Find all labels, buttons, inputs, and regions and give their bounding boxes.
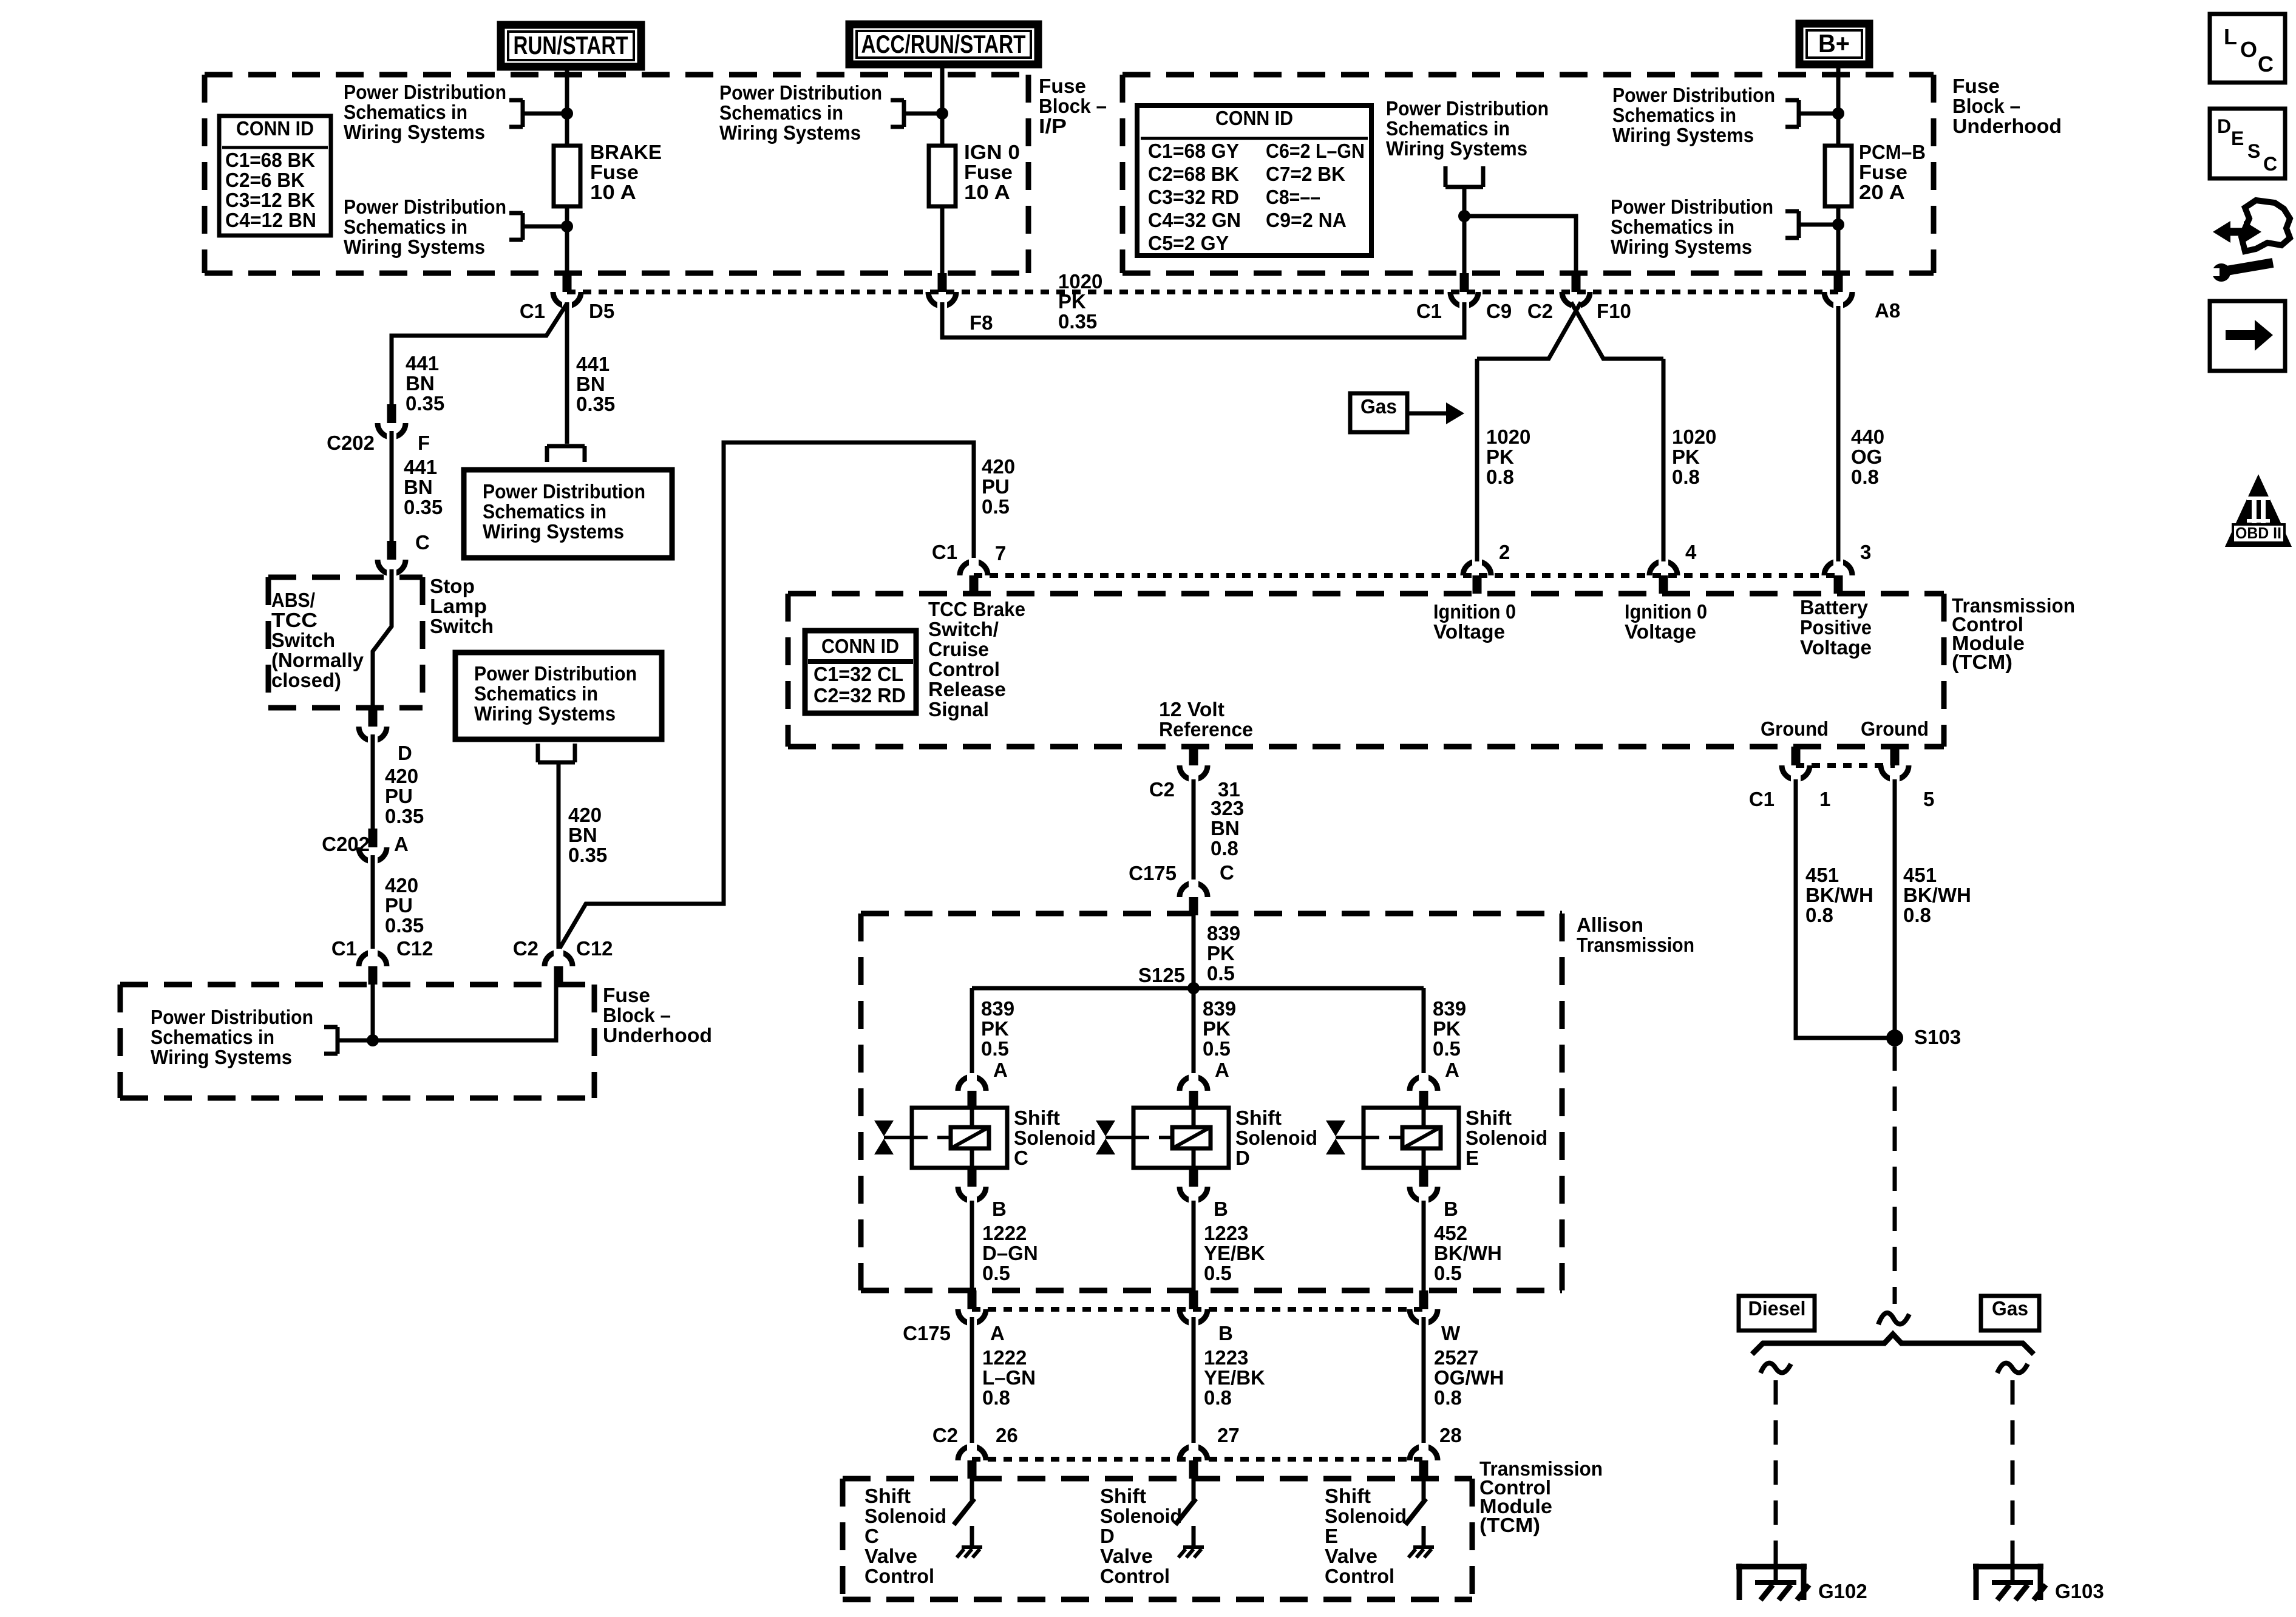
svg-text:OG/WH: OG/WH bbox=[1434, 1366, 1504, 1389]
svg-text:Schematics in: Schematics in bbox=[474, 682, 598, 705]
svg-text:Fuse: Fuse bbox=[1039, 75, 1086, 97]
svg-text:0.5: 0.5 bbox=[1207, 962, 1235, 985]
svg-text:C2=32 RD: C2=32 RD bbox=[813, 684, 906, 707]
wire split to F10 pin bbox=[1464, 216, 1576, 273]
valve symbol at shift solenoid C bbox=[874, 1120, 894, 1136]
svg-text:C9=2 NA: C9=2 NA bbox=[1266, 209, 1347, 231]
svg-text:Solenoid: Solenoid bbox=[1466, 1127, 1547, 1149]
connector C175 cavity C bbox=[1180, 883, 1207, 897]
break symbol above G103 drop bbox=[1997, 1363, 2028, 1373]
wire 451 BK/WH pin1 bbox=[1796, 779, 1888, 1038]
wire RUN/START to BRAKE fuse bbox=[565, 67, 569, 146]
svg-text:PK: PK bbox=[1486, 446, 1514, 468]
svg-text:C202: C202 bbox=[327, 432, 375, 454]
svg-text:PU: PU bbox=[385, 894, 413, 917]
power label B+ bbox=[1799, 24, 1869, 64]
wire S125 to solenoid D bbox=[1192, 988, 1196, 1079]
svg-text:0.5: 0.5 bbox=[982, 1262, 1010, 1284]
wire 2527 OG/WH to TCM pin 28 bbox=[1422, 1317, 1426, 1444]
svg-text:839: 839 bbox=[981, 997, 1014, 1020]
svg-text:839: 839 bbox=[1433, 997, 1466, 1020]
ground G102 bbox=[1736, 1564, 1807, 1570]
svg-text:C1: C1 bbox=[1416, 300, 1442, 322]
svg-text:PK: PK bbox=[981, 1017, 1009, 1040]
svg-text:0.35: 0.35 bbox=[385, 805, 424, 827]
table CONN ID (I/P fuse block) bbox=[219, 116, 331, 236]
svg-text:C7=2 BK: C7=2 BK bbox=[1266, 163, 1345, 185]
svg-text:(Normally: (Normally bbox=[271, 649, 364, 671]
arrow from Gas tag bbox=[1407, 412, 1447, 416]
svg-text:C2: C2 bbox=[932, 1424, 958, 1446]
svg-text:D: D bbox=[1235, 1147, 1250, 1169]
svg-text:Power Distribution: Power Distribution bbox=[483, 480, 645, 503]
svg-text:Valve: Valve bbox=[1100, 1545, 1153, 1567]
svg-text:PK: PK bbox=[1207, 942, 1235, 964]
wire 1020 PK crossover right bbox=[1571, 302, 1663, 359]
connector A8 (PCM-B output) bbox=[1824, 292, 1852, 306]
wire S125 branch bus bbox=[972, 986, 1424, 991]
wire junction to C12 (right) bbox=[373, 985, 556, 1040]
svg-text:Schematics in: Schematics in bbox=[1386, 117, 1510, 140]
svg-text:0.5: 0.5 bbox=[982, 495, 1010, 518]
svg-text:E: E bbox=[1325, 1525, 1338, 1547]
svg-text:IGN 0: IGN 0 bbox=[964, 141, 1020, 163]
break symbol above G102 drop bbox=[1761, 1363, 1791, 1373]
svg-text:E: E bbox=[1466, 1147, 1479, 1169]
svg-text:closed): closed) bbox=[271, 669, 341, 691]
svg-text:Solenoid: Solenoid bbox=[1325, 1505, 1407, 1527]
svg-text:Schematics in: Schematics in bbox=[719, 101, 843, 124]
svg-text:BK/WH: BK/WH bbox=[1434, 1242, 1502, 1264]
ground (solenoid E valve) bbox=[1422, 1526, 1426, 1547]
svg-text:(TCM): (TCM) bbox=[1479, 1514, 1540, 1536]
ground (solenoid C valve) bbox=[970, 1526, 974, 1547]
svg-text:B: B bbox=[992, 1198, 1007, 1220]
connector A of shift solenoid C bbox=[958, 1077, 986, 1091]
wire 323 BN bbox=[1192, 779, 1196, 884]
svg-text:C2=68 BK: C2=68 BK bbox=[1148, 163, 1239, 185]
svg-text:Solenoid: Solenoid bbox=[864, 1505, 946, 1527]
shift solenoid C body bbox=[912, 1108, 1007, 1168]
svg-text:0.8: 0.8 bbox=[1805, 904, 1833, 926]
svg-text:Fuse: Fuse bbox=[603, 984, 650, 1006]
svg-text:CONN ID: CONN ID bbox=[236, 117, 314, 140]
svg-text:PK: PK bbox=[1203, 1017, 1231, 1040]
svg-text:Valve: Valve bbox=[864, 1545, 917, 1567]
svg-text:2527: 2527 bbox=[1434, 1346, 1478, 1369]
power label RUN/START bbox=[501, 25, 641, 67]
svg-text:PU: PU bbox=[982, 475, 1010, 498]
svg-text:C202: C202 bbox=[322, 833, 370, 855]
svg-text:2: 2 bbox=[1499, 541, 1510, 563]
svg-text:Wiring Systems: Wiring Systems bbox=[1386, 137, 1527, 160]
svg-text:Ignition 0: Ignition 0 bbox=[1433, 600, 1516, 623]
wire dashed to G103 bbox=[2011, 1380, 2015, 1564]
svg-text:A: A bbox=[394, 833, 409, 855]
svg-text:441: 441 bbox=[404, 456, 437, 478]
reference box P2 Power Distribution bbox=[455, 653, 662, 739]
TCM dashed box bbox=[788, 591, 1944, 597]
svg-text:L: L bbox=[2224, 24, 2237, 49]
svg-text:C8=––: C8=–– bbox=[1266, 186, 1320, 208]
svg-text:YE/BK: YE/BK bbox=[1204, 1242, 1265, 1264]
svg-text:Power Distribution: Power Distribution bbox=[1611, 195, 1773, 218]
fuse PCM-B 20A symbol bbox=[1825, 146, 1852, 206]
svg-text:BRAKE: BRAKE bbox=[590, 141, 662, 163]
label box Diesel bbox=[1739, 1296, 1815, 1331]
connector A of shift solenoid E bbox=[1410, 1077, 1438, 1091]
connector pin 4 (ignition 0) bbox=[1649, 561, 1677, 575]
svg-text:Power Distribution: Power Distribution bbox=[474, 662, 637, 685]
svg-text:0.35: 0.35 bbox=[404, 496, 443, 518]
ground G103 bbox=[1973, 1564, 2043, 1570]
svg-text:Fuse: Fuse bbox=[1952, 75, 2000, 97]
svg-text:A8: A8 bbox=[1875, 299, 1900, 322]
svg-text:A: A bbox=[990, 1322, 1005, 1344]
switch shift solenoid C valve control bbox=[970, 1479, 974, 1500]
fuse block Underhood dashed box bbox=[1123, 72, 1934, 78]
connector pin 27 bbox=[1180, 1446, 1207, 1460]
svg-text:1222: 1222 bbox=[982, 1346, 1027, 1369]
svg-text:0.8: 0.8 bbox=[1851, 466, 1879, 488]
svg-text:420: 420 bbox=[982, 455, 1015, 478]
wire 1223 YE/BK solenoid D down bbox=[1192, 1201, 1196, 1290]
svg-text:Ground: Ground bbox=[1761, 717, 1829, 740]
connector C2 pin 26 bbox=[958, 1446, 986, 1460]
wire 420 PU D to C202A bbox=[371, 734, 375, 829]
svg-text:E: E bbox=[2231, 127, 2244, 149]
valve symbol at shift solenoid E bbox=[1326, 1120, 1345, 1136]
svg-text:0.8: 0.8 bbox=[1434, 1386, 1462, 1409]
svg-text:10 A: 10 A bbox=[964, 181, 1010, 203]
connector C1 pin 1 (ground) bbox=[1782, 765, 1810, 779]
svg-text:441: 441 bbox=[576, 353, 610, 375]
svg-text:451: 451 bbox=[1805, 864, 1839, 886]
node splice dot C9/F10 split bbox=[1458, 210, 1470, 222]
connector C202 cavity F bbox=[378, 423, 406, 437]
svg-text:PK: PK bbox=[1672, 446, 1700, 468]
svg-text:C1=68 GY: C1=68 GY bbox=[1148, 140, 1239, 162]
connector C1 pin 7 (TCC brake sw) bbox=[960, 561, 988, 575]
svg-text:Control: Control bbox=[864, 1565, 934, 1587]
svg-text:Diesel: Diesel bbox=[1748, 1297, 1806, 1320]
wire 420 BN from P2 to C12 bbox=[557, 762, 561, 953]
svg-text:Reference: Reference bbox=[1159, 718, 1253, 741]
svg-text:Solenoid: Solenoid bbox=[1014, 1127, 1096, 1149]
svg-text:S: S bbox=[2247, 140, 2260, 162]
switch shift solenoid D valve control bbox=[1192, 1479, 1196, 1500]
connector A of shift solenoid D bbox=[1180, 1077, 1207, 1091]
svg-text:ABS/: ABS/ bbox=[271, 589, 315, 611]
svg-text:Power Distribution: Power Distribution bbox=[1386, 97, 1549, 120]
svg-text:4: 4 bbox=[1685, 541, 1697, 563]
svg-text:Block –: Block – bbox=[603, 1004, 671, 1026]
node junction dot PCM-B top bbox=[1832, 107, 1844, 120]
svg-text:ACC/RUN/START: ACC/RUN/START bbox=[861, 30, 1026, 58]
svg-text:C4=12 BN: C4=12 BN bbox=[225, 209, 316, 231]
icon OBD II triangle bbox=[2227, 477, 2290, 546]
bracket A2 to BRAKE wire bbox=[509, 211, 523, 215]
svg-text:Power Distribution: Power Distribution bbox=[719, 81, 882, 104]
wire 1222 L-GN to TCM pin 26 bbox=[970, 1317, 974, 1444]
svg-text:A: A bbox=[993, 1059, 1008, 1081]
svg-text:Schematics in: Schematics in bbox=[344, 215, 467, 238]
svg-text:C: C bbox=[1014, 1147, 1028, 1169]
svg-text:0.8: 0.8 bbox=[1672, 466, 1700, 488]
svg-text:451: 451 bbox=[1903, 864, 1937, 886]
svg-text:A: A bbox=[1445, 1059, 1459, 1081]
bracket B2 to PCM-B wire bbox=[1785, 98, 1799, 103]
svg-text:Schematics in: Schematics in bbox=[344, 101, 467, 123]
svg-text:Power Distribution: Power Distribution bbox=[344, 195, 506, 218]
svg-text:0.5: 0.5 bbox=[1433, 1037, 1461, 1060]
svg-text:1223: 1223 bbox=[1204, 1346, 1248, 1369]
svg-text:Fuse: Fuse bbox=[590, 161, 639, 183]
wire 1020 PK to pin 2 bbox=[1475, 359, 1479, 561]
svg-text:F: F bbox=[418, 432, 430, 454]
node junction dot at BRAKE wire bottom bbox=[561, 220, 573, 232]
svg-text:(TCM): (TCM) bbox=[1952, 651, 2012, 673]
svg-text:Underhood: Underhood bbox=[603, 1024, 712, 1046]
wire 440 OG A8 to pin 3 bbox=[1836, 306, 1841, 561]
shift solenoid E body bbox=[1364, 1108, 1459, 1168]
connector C2/F10 bbox=[1562, 292, 1590, 306]
svg-text:839: 839 bbox=[1207, 922, 1240, 944]
svg-text:Voltage: Voltage bbox=[1800, 636, 1872, 659]
connector C (stop lamp switch) bbox=[378, 560, 406, 574]
svg-text:0.8: 0.8 bbox=[1903, 904, 1931, 926]
svg-text:20 A: 20 A bbox=[1859, 181, 1905, 203]
svg-text:Control: Control bbox=[1325, 1565, 1394, 1587]
svg-text:Schematics in: Schematics in bbox=[1612, 104, 1736, 126]
svg-text:0.5: 0.5 bbox=[1434, 1262, 1462, 1284]
svg-text:Block –: Block – bbox=[1952, 95, 2020, 117]
svg-text:C12: C12 bbox=[396, 937, 433, 960]
svg-text:CONN ID: CONN ID bbox=[1215, 107, 1293, 129]
bracket to junction in lower box bbox=[324, 1025, 338, 1029]
svg-text:PCM–B: PCM–B bbox=[1859, 141, 1926, 163]
svg-text:452: 452 bbox=[1434, 1222, 1467, 1244]
svg-text:420: 420 bbox=[568, 804, 602, 826]
wire 1222 D-GN solenoid C down bbox=[970, 1201, 974, 1290]
ground (solenoid D valve) bbox=[1192, 1526, 1196, 1547]
fuse BRAKE 10A symbol bbox=[554, 146, 580, 206]
svg-text:Shift: Shift bbox=[1100, 1485, 1146, 1507]
svg-text:Fuse: Fuse bbox=[1859, 161, 1907, 183]
wire 1223 YE/BK to TCM pin 27 bbox=[1192, 1317, 1196, 1444]
bracket under reference box P2 bbox=[536, 744, 540, 762]
svg-text:C1=68 BK: C1=68 BK bbox=[225, 149, 315, 171]
svg-text:D: D bbox=[2217, 115, 2231, 137]
svg-text:0.8: 0.8 bbox=[1204, 1386, 1232, 1409]
svg-text:Lamp: Lamp bbox=[430, 595, 487, 617]
svg-text:441: 441 bbox=[406, 352, 439, 375]
svg-text:Wiring Systems: Wiring Systems bbox=[1611, 236, 1752, 258]
wire B+ to PCM-B fuse bbox=[1836, 67, 1841, 146]
svg-text:C4=32 GN: C4=32 GN bbox=[1148, 209, 1241, 231]
svg-text:420: 420 bbox=[385, 765, 418, 787]
node splice S103 bbox=[1886, 1029, 1903, 1046]
svg-text:G103: G103 bbox=[2055, 1580, 2104, 1602]
connector C175 cavity W bbox=[1410, 1309, 1438, 1323]
node junction dot on IGN wire bbox=[936, 107, 948, 120]
table CONN ID (TCM) bbox=[805, 631, 916, 713]
connector C1/C12 (underhood fuse block) bbox=[359, 952, 387, 966]
connector D (stop lamp switch) bbox=[359, 727, 387, 741]
wire 451 BK/WH pin5 bbox=[1893, 779, 1897, 1038]
svg-text:Positive: Positive bbox=[1800, 616, 1872, 639]
svg-text:Allison: Allison bbox=[1577, 914, 1643, 936]
svg-text:CONN ID: CONN ID bbox=[821, 635, 899, 657]
svg-text:C2: C2 bbox=[513, 937, 538, 960]
svg-text:Shift: Shift bbox=[1466, 1107, 1512, 1129]
svg-text:10 A: 10 A bbox=[590, 181, 636, 203]
svg-text:C2: C2 bbox=[1149, 778, 1175, 801]
svg-text:C1: C1 bbox=[1749, 788, 1775, 810]
connector pin 5 (ground) bbox=[1881, 765, 1909, 779]
svg-text:0.5: 0.5 bbox=[1203, 1037, 1231, 1060]
svg-text:PK: PK bbox=[1058, 290, 1086, 313]
svg-text:Solenoid: Solenoid bbox=[1235, 1127, 1317, 1149]
wire ACC/RUN/START to IGN 0 fuse bbox=[940, 67, 945, 146]
svg-text:1020: 1020 bbox=[1672, 425, 1716, 448]
svg-text:RUN/START: RUN/START bbox=[514, 31, 628, 59]
svg-text:Transmission: Transmission bbox=[1577, 934, 1694, 956]
svg-text:PU: PU bbox=[385, 785, 413, 807]
svg-text:TCC: TCC bbox=[271, 609, 318, 631]
svg-text:420: 420 bbox=[385, 874, 418, 897]
label box Gas (engine option tag) bbox=[1350, 393, 1407, 432]
svg-text:Control: Control bbox=[1100, 1565, 1170, 1587]
svg-text:Switch/: Switch/ bbox=[928, 618, 999, 640]
connector C175 cavity A bbox=[958, 1309, 986, 1323]
wire 1020 PK crossover left bbox=[1477, 302, 1581, 359]
connector C1/C9 bbox=[1450, 292, 1478, 306]
svg-text:C1: C1 bbox=[331, 937, 357, 960]
svg-text:Battery: Battery bbox=[1800, 596, 1869, 619]
svg-text:C5=2 GY: C5=2 GY bbox=[1148, 232, 1229, 254]
wire C12 to junction (left) bbox=[371, 985, 375, 1040]
svg-text:Power Distribution: Power Distribution bbox=[151, 1006, 313, 1028]
wire 441 BN branch diagonal from C1/D5 bbox=[392, 303, 567, 404]
svg-text:D–GN: D–GN bbox=[982, 1242, 1038, 1264]
svg-text:G102: G102 bbox=[1818, 1580, 1867, 1602]
dotted connector row TCM top bbox=[974, 573, 1838, 578]
svg-text:0.8: 0.8 bbox=[1486, 466, 1514, 488]
Allison Transmission dashed box bbox=[861, 911, 1562, 917]
svg-text:Shift: Shift bbox=[1325, 1485, 1371, 1507]
svg-text:W: W bbox=[1441, 1322, 1461, 1344]
svg-text:OBD II: OBD II bbox=[2235, 524, 2281, 542]
svg-text:Wiring Systems: Wiring Systems bbox=[344, 236, 485, 258]
wire 441 BN down from C1/D5 bbox=[565, 302, 569, 444]
svg-text:0.35: 0.35 bbox=[576, 393, 615, 415]
svg-text:Control: Control bbox=[928, 658, 1000, 680]
svg-text:C: C bbox=[415, 531, 430, 554]
svg-text:323: 323 bbox=[1211, 797, 1244, 819]
svg-text:TCC Brake: TCC Brake bbox=[928, 598, 1025, 620]
svg-text:S125: S125 bbox=[1138, 964, 1185, 986]
ABS/TCC switch dashed box bbox=[268, 575, 423, 580]
svg-text:BN: BN bbox=[404, 476, 433, 498]
svg-text:12 Volt: 12 Volt bbox=[1159, 698, 1224, 720]
svg-text:D: D bbox=[398, 742, 412, 764]
svg-text:Schematics in: Schematics in bbox=[483, 500, 606, 523]
switch stop lamp blade bbox=[373, 569, 392, 710]
svg-text:Wiring Systems: Wiring Systems bbox=[719, 121, 861, 144]
svg-text:Schematics in: Schematics in bbox=[151, 1026, 274, 1048]
node junction dot at BRAKE wire top bbox=[561, 107, 573, 120]
svg-text:Voltage: Voltage bbox=[1433, 620, 1505, 643]
svg-text:PK: PK bbox=[1433, 1017, 1461, 1040]
svg-text:0.8: 0.8 bbox=[982, 1386, 1010, 1409]
svg-text:BK/WH: BK/WH bbox=[1805, 884, 1873, 906]
svg-text:Valve: Valve bbox=[1325, 1545, 1377, 1567]
svg-text:Switch: Switch bbox=[430, 615, 494, 637]
svg-text:C12: C12 bbox=[576, 937, 613, 960]
svg-text:F10: F10 bbox=[1597, 300, 1631, 322]
svg-text:Ignition 0: Ignition 0 bbox=[1625, 600, 1707, 623]
valve symbol at shift solenoid D bbox=[1096, 1120, 1115, 1136]
svg-text:Stop: Stop bbox=[430, 575, 475, 597]
bracket A3 to IGN wire bbox=[891, 98, 904, 103]
connector B of shift solenoid C bbox=[958, 1187, 986, 1201]
svg-text:0.8: 0.8 bbox=[1211, 837, 1238, 859]
wire 420 PU C202A to C12 bbox=[371, 855, 375, 953]
svg-text:Switch: Switch bbox=[271, 629, 335, 651]
svg-text:BN: BN bbox=[576, 373, 605, 395]
svg-text:Shift: Shift bbox=[1235, 1107, 1282, 1129]
svg-text:0.5: 0.5 bbox=[1204, 1262, 1232, 1284]
wire 452 BK/WH solenoid E down bbox=[1422, 1201, 1426, 1290]
svg-text:26: 26 bbox=[996, 1424, 1018, 1446]
node junction dot PCM-B bottom bbox=[1832, 219, 1844, 231]
svg-text:1222: 1222 bbox=[982, 1222, 1027, 1244]
connector pin 2 (ignition 0) bbox=[1463, 561, 1491, 575]
svg-text:A: A bbox=[1215, 1059, 1229, 1081]
node junction dot lower box bbox=[367, 1034, 379, 1046]
connector C175 cavity B bbox=[1180, 1309, 1207, 1323]
wire bracket B1 to split bbox=[1462, 187, 1467, 216]
svg-text:0.35: 0.35 bbox=[406, 392, 444, 415]
svg-text:B: B bbox=[1214, 1198, 1228, 1220]
dotted connector row C175 bbox=[972, 1307, 1424, 1312]
connector F8 (IGN fuse output) bbox=[928, 292, 956, 306]
connector pin 3 (battery positive) bbox=[1824, 561, 1852, 575]
svg-text:C1: C1 bbox=[520, 300, 545, 322]
icon hand with wrench bbox=[2241, 200, 2290, 251]
connector C2/C12 (underhood fuse block) bbox=[545, 952, 572, 966]
svg-text:Power Distribution: Power Distribution bbox=[344, 81, 506, 103]
table CONN ID (Underhood fuse block) bbox=[1137, 106, 1371, 256]
bracket B3 to PCM-B wire bbox=[1785, 209, 1799, 214]
wire 420 PU 0.5 from TCM pin 7 bbox=[560, 442, 974, 948]
wire 1020 PK 0.35 F8 to C9 bbox=[942, 302, 1464, 337]
svg-text:D: D bbox=[1100, 1525, 1115, 1547]
svg-text:C2=6 BK: C2=6 BK bbox=[225, 169, 305, 191]
svg-text:Ground: Ground bbox=[1861, 717, 1929, 740]
connector C202 cavity A bbox=[359, 847, 387, 861]
svg-text:7: 7 bbox=[995, 542, 1006, 564]
svg-text:C175: C175 bbox=[1129, 862, 1177, 884]
wire dashed below S103 bbox=[1893, 1046, 1897, 1304]
label box Gas (ground side) bbox=[1981, 1296, 2039, 1331]
svg-text:I/P: I/P bbox=[1039, 115, 1067, 137]
svg-text:Gas: Gas bbox=[1360, 395, 1397, 418]
wire IGN fuse to connector F8 bbox=[940, 206, 945, 273]
svg-text:Schematics in: Schematics in bbox=[1611, 215, 1734, 238]
node splice S125 bbox=[1187, 982, 1200, 994]
